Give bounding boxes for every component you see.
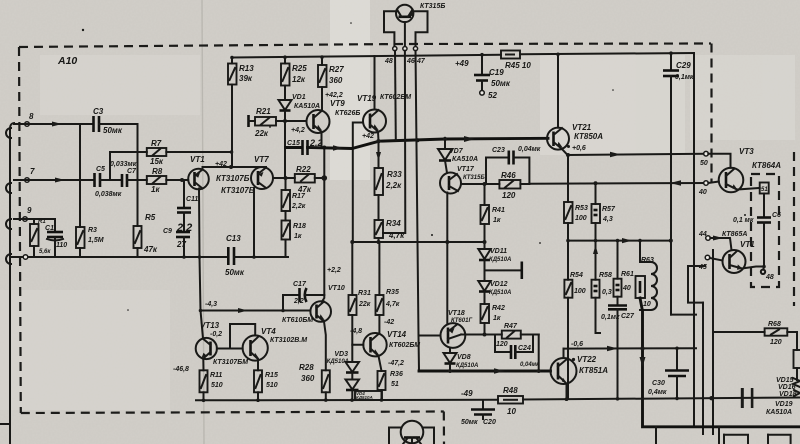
svg-text:120: 120	[502, 191, 516, 200]
svg-text:50мк: 50мк	[461, 419, 478, 426]
transistor VT3 KT864A	[719, 147, 782, 192]
svg-text:С15: С15	[287, 140, 300, 147]
svg-text:110: 110	[56, 242, 67, 249]
svg-text:КТ850А: КТ850А	[574, 132, 603, 141]
svg-text:22к: 22к	[254, 129, 269, 138]
supply rail -49	[196, 389, 800, 400]
svg-text:360: 360	[329, 76, 343, 85]
wire VT1 emitter to arc	[203, 167, 259, 170]
svg-text:15к: 15к	[150, 157, 164, 166]
wire 45 to VT11 base	[710, 258, 723, 261]
capacitor C24 0,04mk bracket	[495, 335, 540, 369]
terminal 45	[705, 255, 710, 260]
svg-text:2,2: 2,2	[309, 138, 323, 148]
resistor R58 0,3	[592, 241, 612, 333]
svg-text:R53: R53	[575, 205, 588, 212]
resistor R1 5,6k	[30, 219, 51, 257]
capacitor C15 2,2	[287, 138, 323, 155]
wire C5 to C7	[100, 179, 122, 181]
arrow on row 7	[55, 178, 65, 183]
svg-text:КТ315Б: КТ315Б	[420, 3, 445, 10]
wire VT10 emitter to R28	[324, 322, 326, 371]
wire 40 to VT3 base	[708, 182, 719, 184]
resistor R8 1k	[147, 167, 167, 194]
resistor R35 4,7k	[376, 242, 400, 333]
transistor VT14 KT3102BM	[243, 327, 308, 361]
svg-text:КД510А: КД510А	[489, 290, 511, 296]
wire VT22 collector up	[563, 349, 565, 358]
svg-text:51: 51	[761, 187, 768, 193]
node VD1 base row	[283, 119, 287, 123]
svg-text:360: 360	[301, 374, 315, 383]
arrow on base row	[238, 308, 248, 313]
svg-text:22к: 22к	[358, 301, 371, 308]
node R41 row242	[483, 240, 487, 244]
svg-text:R11: R11	[210, 372, 222, 379]
diodes VD15 VD16 VD18 labels	[776, 377, 800, 398]
arrow left on row 40	[670, 180, 681, 185]
wire bracket C5C7 node up	[110, 152, 147, 180]
resistor R63 10 with coil	[636, 241, 658, 310]
svg-text:КТ610БМ: КТ610БМ	[282, 317, 313, 324]
capacitor C11 column	[177, 180, 198, 232]
resistor R11 510	[200, 359, 223, 401]
terminal box 51	[760, 183, 769, 194]
svg-text:-42: -42	[384, 319, 394, 326]
node R57 top	[594, 181, 598, 185]
svg-text:-0,6: -0,6	[571, 341, 583, 348]
capacitor C20 50mk	[461, 400, 496, 426]
row 40 output feedback	[529, 182, 706, 185]
heavy signal row +42	[286, 138, 549, 148]
svg-text:VD12: VD12	[490, 281, 508, 288]
wire R21 to VT9 base	[276, 120, 307, 122]
svg-text:510: 510	[266, 382, 278, 389]
svg-text:R15: R15	[265, 372, 278, 379]
svg-text:52: 52	[488, 91, 497, 100]
svg-text:51: 51	[391, 381, 399, 388]
transistor VT19 KT602BM	[357, 94, 411, 133]
capacitor C1 110	[45, 219, 67, 257]
svg-text:VT9: VT9	[330, 99, 345, 108]
resistor R68 120	[765, 321, 797, 350]
svg-text:R13: R13	[239, 64, 254, 73]
svg-text:R5: R5	[145, 213, 156, 222]
transistor VT5 KT315B (external, on fork)	[396, 3, 445, 22]
svg-text:КТ602БМ: КТ602БМ	[389, 342, 420, 349]
svg-text:1к: 1к	[493, 315, 501, 322]
svg-text:1,5М: 1,5М	[88, 237, 104, 244]
svg-text:510: 510	[211, 382, 223, 389]
arrow to VT21 base	[464, 136, 475, 142]
svg-text:100: 100	[574, 288, 586, 295]
node R17 col top	[284, 176, 288, 180]
svg-text:9: 9	[27, 206, 32, 215]
svg-text:VT4: VT4	[261, 327, 276, 336]
svg-text:КД510А: КД510А	[489, 257, 511, 263]
resistor R34 4,7k	[375, 195, 406, 242]
svg-text:R54: R54	[570, 272, 583, 279]
row -0,6	[564, 347, 697, 349]
row C13 to R18/VT7 base	[234, 256, 288, 258]
resistor R57 4,3	[592, 183, 616, 240]
row 50	[568, 154, 707, 155]
svg-text:120: 120	[496, 341, 508, 348]
capacitor C6 0,1mk	[733, 212, 781, 267]
terminal 40	[704, 181, 709, 186]
arrow on 44 wire	[713, 236, 723, 241]
wire VT18 base from 47 wire	[419, 335, 441, 337]
capacitor C9 2,2	[163, 222, 192, 257]
node VT17 col	[445, 240, 449, 244]
node VT19 emitter	[376, 139, 380, 143]
node riser top	[322, 146, 326, 150]
heavy output line down	[640, 298, 800, 427]
wire row240 corner to R68 path	[688, 266, 703, 303]
resistor R22 47k	[295, 165, 315, 194]
node VT7 base on row	[252, 255, 256, 259]
diode VD12 KD510A	[478, 281, 511, 304]
svg-text:+42,2: +42,2	[325, 92, 343, 99]
supply rail +49	[232, 53, 694, 58]
resistor R48 10 (in rail)	[498, 386, 523, 416]
svg-text:40: 40	[622, 285, 631, 292]
svg-text:С13: С13	[226, 234, 241, 243]
wire VT11 emitter to 48	[742, 267, 764, 269]
node joints row240	[566, 239, 570, 243]
resistor R28 360	[299, 363, 330, 400]
resistor R31 22k	[349, 240, 371, 315]
driver row 334	[461, 334, 502, 336]
svg-text:КТ601Г: КТ601Г	[451, 318, 472, 324]
wire 47 continues to corner	[418, 336, 421, 372]
svg-text:4,3: 4,3	[602, 216, 613, 223]
resistor R18 1k	[282, 211, 306, 257]
svg-text:47к: 47к	[143, 245, 158, 254]
diode VD8 KD510A	[444, 348, 479, 371]
svg-text:R33: R33	[387, 170, 402, 179]
wire VT17 right to R46 node	[461, 183, 486, 185]
resistor at right edge (partial)	[794, 350, 800, 380]
svg-text:VT10: VT10	[328, 285, 345, 292]
svg-text:КТ864А: КТ864А	[752, 161, 781, 170]
riser VT10 collector column	[322, 147, 325, 302]
svg-text:КТ315Б: КТ315Б	[463, 175, 485, 181]
terminal 47	[413, 47, 417, 51]
svg-text:+0,6: +0,6	[572, 145, 586, 152]
svg-text:VT1: VT1	[190, 155, 205, 164]
diode VD3 KD510A (pair upper)	[327, 345, 359, 373]
svg-text:48: 48	[384, 58, 393, 65]
node output cross	[640, 346, 644, 350]
svg-text:R31: R31	[358, 290, 371, 297]
svg-text:12к: 12к	[292, 75, 306, 84]
resistor R5 47k	[134, 213, 158, 254]
heatsink dashed box for VT3/VT11	[751, 152, 794, 306]
svg-text:VD3: VD3	[334, 351, 348, 358]
transistor VT14b KT602BM	[350, 328, 420, 356]
svg-text:R18: R18	[293, 223, 306, 230]
svg-text:48: 48	[765, 274, 774, 281]
svg-text:R46: R46	[501, 171, 516, 180]
svg-text:R21: R21	[256, 107, 271, 116]
terminal 9	[23, 217, 28, 222]
wire VT21 collector up	[557, 54, 559, 128]
resistor R17 2,2k	[282, 178, 306, 211]
node R22 riser	[322, 175, 328, 181]
bias node row 242	[353, 241, 485, 243]
svg-text:С17: С17	[293, 281, 307, 288]
svg-text:R47: R47	[504, 323, 518, 330]
connector arc pin 8	[6, 128, 11, 138]
wire VT14b base from R31	[352, 315, 363, 345]
wire 44 to VT11 collector	[710, 238, 731, 250]
node base VT1	[180, 178, 184, 182]
wire VT3 emitter to terminal 51	[737, 188, 760, 190]
svg-text:КТ851А: КТ851А	[579, 366, 608, 375]
VT10 base row -4,3	[201, 310, 311, 312]
wire C7 to R8	[127, 179, 147, 181]
svg-text:КТ3107Б: КТ3107Б	[216, 174, 250, 183]
node VT21 collector rail	[556, 53, 560, 57]
svg-text:4,7к: 4,7к	[385, 301, 400, 308]
svg-text:1к: 1к	[294, 233, 302, 240]
svg-text:VD11: VD11	[490, 248, 507, 255]
svg-text:5,6к: 5,6к	[39, 249, 51, 255]
wire R22 to riser	[315, 177, 325, 179]
terminal 48	[393, 47, 397, 51]
svg-text:R28: R28	[299, 363, 314, 372]
svg-text:R58: R58	[599, 272, 612, 279]
resistor R13 39k	[228, 58, 254, 168]
svg-text:КД510А: КД510А	[327, 359, 349, 365]
svg-text:1к: 1к	[151, 185, 160, 194]
svg-text:R63: R63	[641, 257, 654, 264]
node column x137	[137, 124, 139, 226]
svg-text:КА510А: КА510А	[452, 156, 478, 163]
resistor R42 1k	[481, 304, 505, 335]
terminal 48 right	[762, 267, 765, 270]
wire VT19 emitter to row	[377, 132, 380, 142]
svg-text:КТ626Б: КТ626Б	[335, 110, 360, 117]
svg-text:VD19: VD19	[775, 401, 793, 408]
wire row 7	[14, 179, 94, 181]
svg-text:A10: A10	[57, 55, 77, 67]
svg-text:С1: С1	[45, 225, 54, 232]
node R53 top	[566, 153, 570, 157]
svg-text:50мк: 50мк	[491, 79, 511, 88]
svg-text:R27: R27	[329, 65, 344, 74]
svg-text:R3: R3	[88, 227, 97, 234]
base link VT13-VT14	[217, 348, 243, 350]
arrow on +42 row	[333, 145, 343, 151]
svg-text:R57: R57	[602, 206, 616, 213]
resistor R21 22k	[249, 107, 277, 138]
svg-text:8: 8	[29, 112, 34, 121]
capacitor C19 50mk to terminal 52	[474, 53, 511, 100]
svg-text:+49: +49	[455, 59, 469, 68]
wire VT22 emitter down	[566, 384, 568, 401]
node collector feedback	[198, 255, 202, 259]
svg-text:1к: 1к	[493, 217, 501, 224]
resistor R33 2,2k	[375, 141, 403, 195]
svg-text:С3: С3	[93, 107, 104, 116]
svg-text:45: 45	[698, 264, 707, 271]
svg-text:С30: С30	[652, 380, 665, 387]
capacitor C17 2,2	[281, 281, 324, 312]
svg-text:R34: R34	[386, 219, 401, 228]
mirror bracket VT14 collector to bases	[230, 324, 255, 349]
svg-text:VT1: VT1	[740, 240, 755, 249]
transistor VT11 KT865A	[723, 240, 756, 273]
svg-text:VD8: VD8	[457, 354, 471, 361]
svg-text:КА510А: КА510А	[294, 103, 320, 110]
input connector common line	[0, 123, 14, 444]
svg-text:КД510А: КД510А	[456, 363, 478, 369]
row 371 to VT22 base	[419, 370, 551, 373]
terminal 46	[403, 47, 407, 51]
arrow on -0,6 row	[607, 346, 618, 351]
wire VT9 emitter down to row	[321, 132, 323, 148]
capacitor C29 0,1mk	[663, 51, 694, 314]
svg-text:С7: С7	[127, 168, 137, 175]
wire VT1 collector down	[199, 189, 203, 339]
svg-text:100: 100	[575, 215, 587, 222]
fork outline for VT5	[384, 11, 428, 46]
capacitor C3 50mk	[93, 107, 123, 135]
svg-text:40: 40	[698, 189, 707, 196]
svg-text:VT13: VT13	[200, 321, 220, 330]
svg-text:VT22: VT22	[577, 355, 597, 364]
svg-text:-47,2: -47,2	[388, 360, 404, 367]
svg-text:0,1мк: 0,1мк	[675, 74, 694, 81]
wire VT19 collector up	[374, 56, 376, 110]
node C9 on ground row	[182, 255, 186, 259]
svg-text:С9: С9	[163, 228, 172, 235]
svg-text:-4,3: -4,3	[205, 301, 217, 308]
diode VD7 KA510A	[438, 139, 478, 173]
capacitor C30 0,4mk	[648, 347, 689, 399]
svg-text:С19: С19	[489, 68, 504, 77]
node emitters	[229, 165, 233, 169]
transistor VT18 KT601G	[441, 310, 473, 348]
wire R5 to ground row	[137, 248, 139, 257]
node R34 bottom	[377, 240, 381, 244]
node VD7	[443, 137, 447, 141]
svg-text:R42: R42	[492, 305, 505, 312]
svg-text:С24: С24	[518, 345, 531, 352]
resistor R7 15k	[147, 139, 167, 166]
wire VT19 base L	[353, 123, 363, 243]
svg-text:КД510А: КД510А	[356, 395, 373, 400]
rail junction nodes	[202, 396, 714, 402]
resistor R25 12k	[281, 57, 307, 85]
svg-text:С29: С29	[676, 61, 691, 70]
wire R8 to VT1 base	[166, 179, 188, 181]
transistor VT10 KT610BM	[282, 267, 345, 324]
resistor R47 120	[496, 323, 539, 348]
svg-text:2,2: 2,2	[293, 298, 304, 305]
wire 46 down to R34	[383, 51, 405, 233]
svg-text:R25: R25	[292, 64, 307, 73]
svg-text:46: 46	[406, 58, 415, 65]
svg-text:+42: +42	[362, 133, 374, 140]
svg-text:2,2к: 2,2к	[291, 203, 306, 210]
svg-text:С23: С23	[492, 147, 505, 154]
wire row 9	[14, 218, 55, 220]
ferrite bar on rail	[741, 388, 744, 408]
svg-text:R35: R35	[386, 289, 399, 296]
wire VT21 emitter to row 50	[562, 149, 568, 155]
svg-text:50: 50	[700, 160, 708, 167]
svg-text:VD7: VD7	[449, 148, 464, 155]
wire row 8	[14, 123, 93, 125]
svg-text:R41: R41	[492, 207, 505, 214]
svg-text:10: 10	[507, 407, 516, 416]
svg-text:R36: R36	[390, 371, 403, 378]
transistor VT22 KT851A	[551, 355, 609, 384]
svg-text:С5: С5	[96, 166, 105, 173]
svg-text:-46,8: -46,8	[173, 366, 189, 373]
resistor R46 120	[486, 171, 529, 200]
svg-text:10: 10	[643, 301, 651, 308]
resistor R45 10 (in rail)	[501, 51, 531, 71]
terminal on ground row	[23, 255, 28, 260]
svg-text:+4,2: +4,2	[291, 127, 305, 134]
svg-text:0,4мк: 0,4мк	[648, 389, 667, 396]
node VD8 row	[448, 369, 452, 373]
svg-text:R17: R17	[292, 193, 306, 200]
wire VT7 emitter to arc	[258, 166, 266, 169]
svg-text:VD1: VD1	[292, 94, 306, 101]
svg-text:VT21: VT21	[572, 123, 592, 132]
terminal 8	[25, 122, 30, 127]
svg-text:R61: R61	[621, 271, 634, 278]
node R7 join	[230, 150, 234, 154]
wire VT7 base column	[253, 188, 255, 257]
rail tap nodes	[230, 55, 419, 142]
node row310	[199, 309, 203, 313]
resistor R53 100	[564, 155, 588, 241]
connector arc pin 9	[6, 219, 11, 229]
svg-text:0,04мк: 0,04мк	[518, 146, 541, 153]
wire 47 down long	[416, 51, 419, 336]
svg-text:С6: С6	[772, 212, 781, 219]
connector arc pin 7	[6, 183, 11, 193]
wire C3 to node column	[99, 123, 138, 125]
svg-text:0,033мк: 0,033мк	[110, 161, 137, 168]
svg-text:С11: С11	[186, 196, 198, 203]
svg-text:R8: R8	[152, 167, 163, 176]
diode VD1 KA510A	[279, 86, 321, 179]
terminal 44	[706, 236, 711, 241]
svg-text:-49: -49	[461, 389, 473, 398]
diode VD11 KD510A	[478, 248, 522, 281]
wire 51 down to C6	[763, 194, 765, 218]
transistor VT17 KT315B	[440, 166, 485, 194]
wire R7 to emitter node	[166, 151, 231, 153]
capacitor C13 50mk (series in row)	[225, 234, 245, 277]
svg-text:R7: R7	[151, 139, 162, 148]
svg-text:4,7к: 4,7к	[388, 231, 405, 240]
svg-text:0,1 мк: 0,1 мк	[733, 217, 754, 224]
diode VD19 bar	[751, 388, 793, 416]
terminal 7	[25, 178, 30, 183]
mid power row 240	[568, 240, 671, 242]
svg-text:7: 7	[30, 167, 35, 176]
svg-text:120: 120	[770, 339, 782, 346]
svg-text:50мк: 50мк	[225, 268, 245, 277]
